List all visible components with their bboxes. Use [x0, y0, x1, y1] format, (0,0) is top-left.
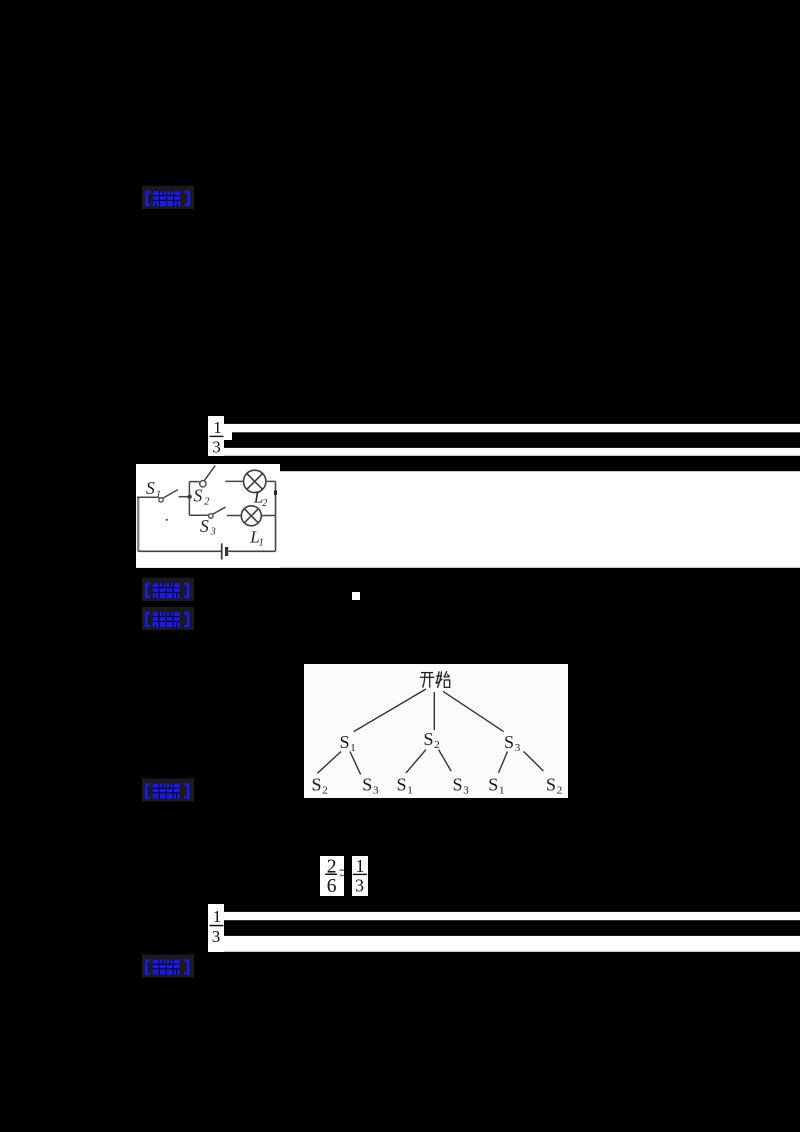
svg-text:S: S [504, 732, 514, 752]
fraction 1/3 (bottom) [208, 904, 224, 952]
svg-text:1: 1 [213, 907, 222, 926]
svg-text:2: 2 [322, 785, 328, 797]
fraction 1/3 (top) [208, 416, 224, 457]
label ANSWER (blue 【答案】) [142, 186, 194, 209]
switch S1 contact [159, 498, 163, 502]
equals sign [340, 869, 344, 871]
svg-text:3: 3 [373, 785, 379, 797]
switch S1 lever [163, 490, 178, 499]
edge root-S2 [433, 692, 435, 730]
white text-line bar 3 [224, 912, 800, 920]
svg-text:1: 1 [407, 785, 413, 797]
leaf S1b [488, 775, 504, 797]
wire S3 to L1 [227, 515, 242, 517]
svg-text:2: 2 [262, 498, 267, 509]
label SOLUTION (blue 【解答】) [142, 779, 194, 802]
junction node [187, 495, 191, 499]
svg-text:S: S [200, 516, 209, 536]
svg-text:2: 2 [434, 739, 440, 751]
svg-text:S: S [488, 775, 498, 795]
edge S1-S3 [350, 752, 361, 775]
svg-text:S: S [546, 775, 556, 795]
lamp L2 label [253, 488, 267, 509]
svg-text:S: S [424, 729, 434, 749]
edge root-S1 [354, 689, 426, 732]
small white square [352, 592, 360, 600]
svg-text:S: S [340, 732, 350, 752]
switch S2 contact [200, 481, 206, 487]
battery long plate [221, 543, 223, 559]
fraction 2/6 [320, 856, 344, 897]
edge S1-S2 [318, 752, 342, 774]
wire S2 to L2 [225, 480, 243, 482]
node KAISHI (开始) [420, 671, 450, 688]
switch S1 label [146, 478, 161, 501]
svg-text:1: 1 [259, 538, 264, 549]
wire L1 to right rail [261, 515, 275, 517]
circuit white band full width [136, 471, 800, 568]
wire L2 to right rail [266, 480, 276, 482]
node S2 [424, 729, 440, 751]
svg-text:3: 3 [212, 927, 221, 946]
node S1 [340, 732, 356, 754]
svg-text:3: 3 [212, 438, 221, 457]
svg-text:3: 3 [463, 785, 469, 797]
switch S2 label [194, 485, 210, 507]
switch S3 contact [209, 514, 214, 519]
svg-text:3: 3 [210, 527, 216, 538]
svg-text:S: S [312, 775, 322, 795]
edge S3-S2 [524, 752, 544, 772]
leaf S1 [397, 775, 413, 797]
svg-text:3: 3 [355, 876, 364, 896]
svg-text:S: S [194, 485, 203, 505]
circuit white panel (left top part) [136, 464, 280, 568]
circuit drawing [137, 466, 277, 560]
svg-text:1: 1 [356, 856, 365, 876]
lamp L2 [244, 470, 266, 492]
svg-text:S: S [362, 775, 372, 795]
white text-line bar 1 [224, 424, 800, 432]
node S3 [504, 732, 521, 754]
edge S2-S3 [439, 750, 452, 772]
edge S3-S1 [499, 752, 508, 773]
leaf S2b [546, 775, 562, 797]
bottom wire right [228, 550, 275, 552]
svg-text:6: 6 [327, 876, 337, 897]
leaf S3 [362, 775, 379, 797]
leaf S3b [453, 775, 470, 797]
label EXAM-POINT (blue 【考点】) [142, 578, 194, 601]
switch S3 label [200, 516, 216, 537]
svg-text:2: 2 [204, 496, 209, 507]
leaf S2 [312, 775, 328, 797]
right rail wire [275, 481, 277, 551]
wire junction down [188, 497, 190, 516]
fraction 1/3 (mid) [352, 856, 368, 896]
stray dot [166, 519, 168, 521]
svg-text:S: S [453, 775, 463, 795]
white text-line bar 4 (thick) [224, 936, 800, 952]
battery left rail wire [137, 497, 140, 551]
label COMMENT (blue 【点评】) [142, 955, 194, 978]
lamp L1 label [249, 528, 263, 549]
svg-text:1: 1 [499, 785, 505, 797]
edge S2-S1 [406, 750, 426, 773]
label ANALYSIS (blue 【分析】) [142, 607, 194, 630]
wire S1 to junction [179, 496, 188, 498]
wire to S3 [189, 514, 208, 516]
lamp L1 [241, 506, 261, 526]
svg-text:S: S [397, 775, 407, 795]
switch S2 lever [204, 466, 215, 481]
svg-text:2: 2 [557, 785, 563, 797]
switch S3 lever [212, 507, 225, 514]
bottom wire left [138, 550, 221, 552]
rail tick mark [274, 491, 277, 496]
svg-text:S: S [146, 478, 155, 498]
white step block [224, 432, 232, 440]
svg-text:3: 3 [515, 742, 521, 754]
svg-text:1: 1 [213, 418, 222, 437]
wire junction up [188, 482, 190, 497]
svg-text:1: 1 [350, 742, 356, 754]
wire to S1 [137, 496, 159, 498]
wire to S2 [189, 481, 199, 483]
edge root-S3 [443, 691, 504, 731]
white text-line bar 2 [224, 448, 800, 456]
tree diagram panel [304, 664, 568, 798]
battery short plate [225, 547, 228, 556]
